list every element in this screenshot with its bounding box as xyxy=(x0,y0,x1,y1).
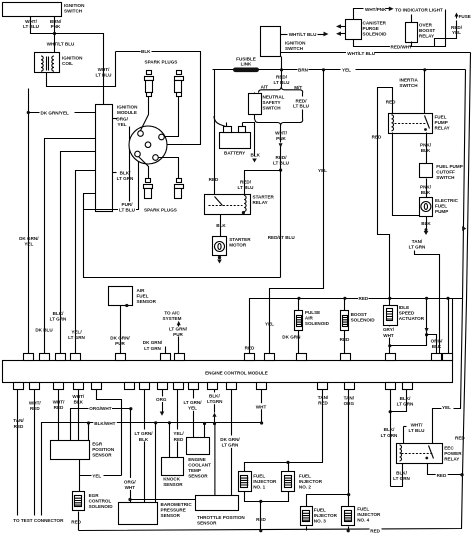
injector FI1 fuel injector no 1 xyxy=(239,472,252,492)
svg-text:SPARK PLUGS: SPARK PLUGS xyxy=(145,60,178,65)
svg-text:BAROMETRIC: BAROMETRIC xyxy=(161,502,193,507)
svg-text:RED: RED xyxy=(386,99,396,104)
svg-text:BLK: BLK xyxy=(421,148,431,153)
ground battery xyxy=(252,159,257,163)
relay K2 over boost relay xyxy=(406,23,418,43)
svg-text:RED: RED xyxy=(455,435,465,440)
svg-text:LT BLU: LT BLU xyxy=(23,24,40,29)
svg-text:BLK: BLK xyxy=(216,223,226,228)
svg-text:LTGRN: LTGRN xyxy=(207,399,223,404)
wire TAN/RED to test connector xyxy=(17,390,19,516)
svg-text:RELAY: RELAY xyxy=(435,125,450,130)
svg-text:KNOCK: KNOCK xyxy=(163,476,181,481)
svg-text:ENGINE: ENGINE xyxy=(188,457,206,462)
svg-text:RED: RED xyxy=(437,473,447,478)
svg-text:BLK/: BLK/ xyxy=(400,396,411,401)
battery B1 xyxy=(220,133,251,149)
svg-text:BLK: BLK xyxy=(74,400,84,405)
svg-text:SENSOR: SENSOR xyxy=(92,452,112,457)
wire WHT/LT BLU stub to EEC relay xyxy=(403,427,405,444)
svg-text:WHT/: WHT/ xyxy=(275,130,287,135)
svg-text:WHT/: WHT/ xyxy=(72,394,84,399)
svg-text:FUEL: FUEL xyxy=(137,294,149,299)
sensor air fuel sensor xyxy=(109,287,133,306)
svg-text:COIL: COIL xyxy=(62,61,73,66)
switch S4 fuel pump cutoff switch xyxy=(420,164,433,178)
svg-text:AIR: AIR xyxy=(305,316,314,321)
wire BLK pump ground xyxy=(426,217,428,231)
svg-text:LT GRN: LT GRN xyxy=(68,335,85,340)
svg-text:LT GRN: LT GRN xyxy=(397,402,414,407)
svg-text:YEL: YEL xyxy=(452,30,461,35)
brace bottom xyxy=(255,120,303,126)
svg-text:DK BLU: DK BLU xyxy=(35,328,53,333)
sensor EGR position sensor xyxy=(51,441,90,460)
svg-text:RED/: RED/ xyxy=(240,179,252,184)
svg-text:OVER: OVER xyxy=(419,23,433,28)
wire BLK/LT GRN module stub label xyxy=(113,172,117,174)
svg-text:FUEL: FUEL xyxy=(314,507,326,512)
svg-text:THROTTLE POSITION: THROTTLE POSITION xyxy=(197,515,245,520)
distributor cap xyxy=(129,126,167,164)
svg-text:BLK: BLK xyxy=(251,153,261,158)
wire BLK/LTGRN to ground rail and TPS xyxy=(214,390,216,413)
svg-text:BLK: BLK xyxy=(139,437,149,442)
svg-text:LT GRN: LT GRN xyxy=(381,433,398,438)
svg-text:ENGINE CONTROL MODULE: ENGINE CONTROL MODULE xyxy=(205,370,268,375)
wire WHT/PNK to starter circuit xyxy=(280,126,282,143)
svg-text:SAFETY: SAFETY xyxy=(263,100,281,105)
svg-text:RED: RED xyxy=(14,424,24,429)
wire RED inertia switch run xyxy=(378,88,393,299)
wire injector 3-4 return to bottom RED rail xyxy=(306,527,308,531)
ECM bottom connector stubs xyxy=(14,383,413,390)
wire RED rail drop to ECM right xyxy=(446,297,449,300)
svg-text:POSITION: POSITION xyxy=(92,447,115,452)
svg-text:SWITCH: SWITCH xyxy=(64,9,83,14)
wire battery negative BLK to ground xyxy=(243,123,255,157)
svg-text:YEL: YEL xyxy=(265,321,274,326)
svg-text:DK GRN/: DK GRN/ xyxy=(19,236,39,241)
svg-text:SENSOR: SENSOR xyxy=(137,299,157,304)
svg-text:SOLENOID: SOLENOID xyxy=(89,504,114,509)
svg-text:NEUTRAL: NEUTRAL xyxy=(263,95,285,100)
wire module stub 3 xyxy=(61,152,96,357)
svg-text:BLK/: BLK/ xyxy=(396,470,407,475)
svg-text:DK GRN/: DK GRN/ xyxy=(143,340,163,345)
svg-text:CONTROL: CONTROL xyxy=(89,499,112,504)
injector FI2 fuel injector no 2 xyxy=(282,472,295,492)
svg-text:SENSOR: SENSOR xyxy=(188,474,208,479)
svg-text:RED/: RED/ xyxy=(276,155,288,160)
relay K3 fuel pump relay xyxy=(389,114,433,134)
svg-text:BLK/: BLK/ xyxy=(384,427,395,432)
svg-text:PUR: PUR xyxy=(115,341,125,346)
svg-text:NO. 1: NO. 1 xyxy=(253,485,265,490)
svg-text:PRESSURE: PRESSURE xyxy=(161,507,186,512)
ECM top connector stubs xyxy=(24,354,453,361)
svg-text:LT BLU: LT BLU xyxy=(96,73,113,78)
wire WHT/BLK to EGR sensor xyxy=(78,390,80,441)
svg-text:M/T: M/T xyxy=(294,85,302,90)
svg-text:PUR/: PUR/ xyxy=(122,202,134,207)
sensor throttle position sensor xyxy=(196,496,239,511)
svg-text:BLK/: BLK/ xyxy=(120,171,131,176)
wire module stub 5 to RED/LT BLU rail xyxy=(84,194,281,278)
wire injector 1-2 return xyxy=(245,492,289,502)
wire ORG/WHT cross link xyxy=(71,409,131,441)
solenoid L2 pulse air solenoid xyxy=(297,297,300,300)
svg-text:YEL: YEL xyxy=(318,168,327,173)
svg-text:NO. 2: NO. 2 xyxy=(299,485,311,490)
svg-text:BLK/: BLK/ xyxy=(53,311,64,316)
wire GRY/WHT actuator to ECM xyxy=(389,326,391,357)
svg-text:SWITCH: SWITCH xyxy=(285,46,304,51)
relay K4 EEC power relay xyxy=(397,444,443,464)
svg-text:PNK: PNK xyxy=(51,24,61,29)
spark plug P4 xyxy=(159,158,184,199)
wire LT GRN/YEL to coolant sensor xyxy=(193,390,195,438)
svg-text:INJECTOR: INJECTOR xyxy=(253,479,277,484)
svg-text:WHT/: WHT/ xyxy=(411,422,423,427)
svg-text:PUR: PUR xyxy=(173,332,183,337)
wire PUR/LT BLU module to distributor pickup xyxy=(84,162,139,210)
svg-text:DK GRN/YEL: DK GRN/YEL xyxy=(41,111,70,116)
svg-text:ORG/WHT: ORG/WHT xyxy=(89,406,111,411)
vacuum arrows into canister solenoid xyxy=(338,26,346,28)
solenoid L3 boost solenoid xyxy=(343,297,346,300)
injector FI4 fuel injector no 4 xyxy=(342,507,355,526)
svg-text:RED: RED xyxy=(209,177,219,182)
wire YEL right border xyxy=(433,70,466,444)
ignition module U1 xyxy=(96,105,113,212)
wire YEL tap to fuel pump relay xyxy=(423,68,426,71)
svg-text:FUEL: FUEL xyxy=(357,507,369,512)
svg-text:YEL: YEL xyxy=(92,473,101,478)
svg-text:COOLANT: COOLANT xyxy=(188,463,211,468)
wire WHT to sensor ground rail xyxy=(261,390,263,423)
svg-text:LT BLU: LT BLU xyxy=(119,207,136,212)
wire WHT/LT BLU junction to coil top xyxy=(54,34,56,53)
switch S3 neutral safety switch xyxy=(249,94,262,115)
svg-text:WHT: WHT xyxy=(125,485,136,490)
svg-text:SYSTEM: SYSTEM xyxy=(163,316,182,321)
svg-text:RED/: RED/ xyxy=(296,98,308,103)
svg-text:RED/LT BLU: RED/LT BLU xyxy=(268,235,296,240)
fuse F1 xyxy=(435,21,457,47)
svg-text:BOOST: BOOST xyxy=(351,312,368,317)
svg-text:TAN/: TAN/ xyxy=(344,396,355,401)
svg-text:WHT/: WHT/ xyxy=(98,67,110,72)
svg-text:NO. 4: NO. 4 xyxy=(357,518,369,523)
svg-text:MOTOR: MOTOR xyxy=(229,243,247,248)
svg-text:BLK: BLK xyxy=(432,344,442,349)
spark plug P1 xyxy=(141,71,154,131)
node junction starter feed xyxy=(279,169,282,172)
svg-text:YEL: YEL xyxy=(442,405,451,410)
svg-text:BLK/WHT: BLK/WHT xyxy=(94,421,115,426)
wire TAN/RED to injectors 1-2 xyxy=(245,390,323,472)
svg-text:RED: RED xyxy=(359,296,369,301)
svg-text:PNK: PNK xyxy=(276,136,286,141)
wire PNK/BLK cutoff to pump xyxy=(426,179,428,198)
svg-text:FUEL: FUEL xyxy=(299,474,311,479)
wire ground-rail drop to knock sensor xyxy=(168,421,171,424)
svg-text:BOOST: BOOST xyxy=(419,28,436,33)
wire link to TPS xyxy=(131,499,196,501)
svg-text:RED/: RED/ xyxy=(451,25,463,30)
svg-text:RED: RED xyxy=(54,405,64,410)
svg-text:IDLE: IDLE xyxy=(399,305,409,310)
wire BLK/LT GRN ECM pair to EEC relay xyxy=(391,390,407,412)
svg-text:WHT: WHT xyxy=(383,333,394,338)
svg-text:BLK: BLK xyxy=(421,190,431,195)
sensor barometric pressure sensor xyxy=(119,503,158,525)
svg-text:SOLENOID: SOLENOID xyxy=(305,321,330,326)
svg-text:WHT/LT BLU: WHT/LT BLU xyxy=(347,51,375,56)
wire RED/LT BLU down to NSS braces xyxy=(281,70,283,87)
svg-text:SPARK PLUGS: SPARK PLUGS xyxy=(144,208,177,213)
svg-text:LT GRN: LT GRN xyxy=(117,176,134,181)
svg-text:INERTIA: INERTIA xyxy=(399,78,418,83)
svg-text:BRN: BRN xyxy=(298,68,309,73)
wire ground-rail drop to barometric xyxy=(154,421,157,424)
svg-text:STARTER: STARTER xyxy=(229,237,251,242)
wire LT GRN/BLK to barometric sensor xyxy=(144,390,146,503)
svg-text:TO A/C: TO A/C xyxy=(164,310,180,315)
wire WHT/RED to EGR sensor xyxy=(58,390,60,441)
wire YEL from fusible junction to ECM xyxy=(270,70,324,357)
svg-text:FUEL: FUEL xyxy=(435,114,447,119)
svg-text:WHT/PNK: WHT/PNK xyxy=(365,7,387,12)
svg-text:LINK: LINK xyxy=(241,61,252,66)
svg-text:STARTER: STARTER xyxy=(253,194,275,199)
spark plug P2 xyxy=(165,71,184,137)
svg-text:ORG/: ORG/ xyxy=(116,116,128,121)
svg-text:YEL: YEL xyxy=(118,122,127,127)
svg-text:MODULE: MODULE xyxy=(117,110,137,115)
motor M1 starter motor xyxy=(213,237,227,256)
switch S1 ignition switch (left) xyxy=(3,3,62,17)
svg-text:SWITCH: SWITCH xyxy=(263,106,282,111)
svg-text:IGNITION: IGNITION xyxy=(117,105,138,110)
svg-text:RELAY: RELAY xyxy=(444,456,459,461)
wire YEL EGR sensor to solenoid xyxy=(79,460,81,492)
solenoid L5 EGR control solenoid xyxy=(73,492,85,511)
svg-text:SOLENOID: SOLENOID xyxy=(363,31,388,36)
svg-text:EGR: EGR xyxy=(89,493,100,498)
wire stub to YEL node xyxy=(97,390,122,476)
svg-text:IGNITION: IGNITION xyxy=(64,3,85,8)
wire BLK/WHT rail drop to EGR sensor xyxy=(88,423,90,441)
svg-text:BRN/: BRN/ xyxy=(50,19,62,24)
svg-text:TAN/: TAN/ xyxy=(412,239,423,244)
svg-text:NO. 3: NO. 3 xyxy=(314,518,326,523)
svg-text:ACTUATOR: ACTUATOR xyxy=(399,316,425,321)
wire WHT/LT BLU long line to right xyxy=(281,52,471,54)
wire DK GRN/PUR sensor to ECM xyxy=(120,306,122,357)
svg-text:TO TEST CONNECTOR: TO TEST CONNECTOR xyxy=(13,518,64,523)
motor M2 electric fuel pump xyxy=(420,198,433,217)
svg-text:RED: RED xyxy=(71,520,81,525)
svg-text:LT GRN: LT GRN xyxy=(144,346,161,351)
svg-text:SENSOR: SENSOR xyxy=(197,521,217,526)
svg-text:FUEL: FUEL xyxy=(253,474,265,479)
ECM U2 engine control module xyxy=(3,361,453,383)
wire ORG/YEL module output xyxy=(113,118,118,120)
svg-text:INJECTOR: INJECTOR xyxy=(299,479,323,484)
svg-text:LT BLU: LT BLU xyxy=(409,428,426,433)
svg-text:ORG/: ORG/ xyxy=(431,339,443,344)
svg-text:SENSOR: SENSOR xyxy=(161,513,181,518)
wire PNK/BLK relay to cutoff switch xyxy=(426,133,428,164)
wire M/T RED/LT BLU xyxy=(302,93,304,97)
svg-text:RED: RED xyxy=(174,437,184,442)
wire BLK coil secondary to distributor xyxy=(116,52,201,145)
svg-text:RELAY: RELAY xyxy=(419,34,434,39)
svg-text:CUTOFF: CUTOFF xyxy=(436,170,455,175)
ignition coil T1 xyxy=(35,53,60,73)
svg-text:PURGE: PURGE xyxy=(363,26,379,31)
svg-text:LT BLU: LT BLU xyxy=(273,160,290,165)
svg-text:RED: RED xyxy=(256,517,266,522)
wire DK GRN/YEL coil to module and ECM xyxy=(28,89,30,357)
wire WHT/LT BLU from ignition switch xyxy=(31,17,55,34)
svg-text:RED: RED xyxy=(340,337,350,342)
svg-text:PULSE: PULSE xyxy=(305,310,320,315)
svg-text:FUEL PUMP: FUEL PUMP xyxy=(436,164,462,169)
svg-text:LT GRN: LT GRN xyxy=(50,316,67,321)
svg-text:PNK/: PNK/ xyxy=(420,184,432,189)
svg-text:ORG/: ORG/ xyxy=(124,480,136,485)
svg-text:BLK/: BLK/ xyxy=(209,393,220,398)
brace top A/T M/T xyxy=(259,87,303,93)
wire TAN/ORG to injectors 3-4 xyxy=(348,390,350,507)
svg-text:TEMP: TEMP xyxy=(188,468,201,473)
actuator L4 idle speed actuator xyxy=(388,297,391,300)
wire RED/LT BLU to starter relay xyxy=(245,171,281,195)
wire relay RED to pump body xyxy=(393,133,420,216)
svg-text:SENSOR: SENSOR xyxy=(163,482,183,487)
wire RED/LT BLU long run to ECM rail xyxy=(280,171,282,278)
wire RED/WHT return line xyxy=(354,10,446,47)
svg-text:INJECTOR: INJECTOR xyxy=(357,512,381,517)
svg-text:RELAY: RELAY xyxy=(253,200,268,205)
svg-text:INJECTOR: INJECTOR xyxy=(314,513,338,518)
svg-text:YEL: YEL xyxy=(188,406,197,411)
svg-text:EEC: EEC xyxy=(444,445,454,450)
wire BLK/WHT to test connector xyxy=(42,423,262,516)
svg-text:BLK: BLK xyxy=(421,221,431,226)
svg-text:YEL: YEL xyxy=(342,68,351,73)
node junction at ignition feed xyxy=(53,32,56,35)
wire ORG stub with connector arrow xyxy=(162,390,164,413)
svg-text:TO INDICATOR LIGHT: TO INDICATOR LIGHT xyxy=(395,7,443,12)
injector FI3 fuel injector no 3 xyxy=(301,507,313,526)
wire RED EGR solenoid to bottom rail xyxy=(78,512,80,531)
svg-text:YEL/: YEL/ xyxy=(173,431,184,436)
svg-text:RED: RED xyxy=(318,400,328,405)
svg-text:RED: RED xyxy=(370,529,380,534)
svg-text:BATTERY: BATTERY xyxy=(224,150,245,155)
wire RED EEC relay output xyxy=(428,464,463,475)
svg-text:WHT/: WHT/ xyxy=(53,399,65,404)
wire RED rail from ECM xyxy=(250,299,463,357)
wire battery feed RED from fusible link xyxy=(214,70,216,195)
svg-text:WHT: WHT xyxy=(256,404,267,409)
wire module stub 2 xyxy=(45,139,96,357)
svg-text:TAN/: TAN/ xyxy=(13,418,24,423)
relay K1 starter relay xyxy=(205,195,251,215)
svg-text:RED/WHT: RED/WHT xyxy=(391,44,413,49)
wire YEL/RED to knock sensor xyxy=(177,390,179,458)
spark plug P3 xyxy=(139,157,153,199)
svg-text:SPEED: SPEED xyxy=(399,311,415,316)
svg-text:FUEL: FUEL xyxy=(435,204,447,209)
wire coil negative to BLK riser xyxy=(47,52,116,87)
svg-text:LT BLU: LT BLU xyxy=(293,104,310,109)
svg-text:AIR: AIR xyxy=(137,288,146,293)
svg-text:SOLENOID: SOLENOID xyxy=(351,318,376,323)
svg-text:TAN/: TAN/ xyxy=(318,395,329,400)
arrow marker on right border xyxy=(462,226,466,231)
svg-text:LT GRN/: LT GRN/ xyxy=(183,400,202,405)
solenoid L1 canister purge solenoid xyxy=(346,20,362,40)
wire ORG/BLK branch xyxy=(426,299,428,335)
svg-text:SWITCH: SWITCH xyxy=(436,175,455,180)
svg-text:WHT/LT BLU: WHT/LT BLU xyxy=(47,41,75,46)
svg-text:RED: RED xyxy=(30,406,40,411)
svg-text:RED: RED xyxy=(245,346,255,351)
node junction BRN at ign switch xyxy=(280,68,283,71)
wire ignition switch to BRN junction xyxy=(281,57,283,70)
svg-text:RED: RED xyxy=(372,135,382,140)
wire BLK relay to starter motor xyxy=(220,215,222,237)
svg-text:WHT/LT BLU: WHT/LT BLU xyxy=(289,32,317,37)
svg-text:LT GRN: LT GRN xyxy=(222,443,239,448)
svg-text:IGNITION: IGNITION xyxy=(285,41,306,46)
sensor knock sensor xyxy=(162,458,184,476)
svg-text:PUMP: PUMP xyxy=(435,209,448,214)
svg-text:LT GRN/: LT GRN/ xyxy=(169,326,188,331)
svg-text:LT GRN: LT GRN xyxy=(393,476,410,481)
wire module stub 4 xyxy=(76,171,96,357)
wire DK GRN/LT GRN stub xyxy=(165,347,167,357)
wire WHT/LT BLU junction to ignition module xyxy=(55,34,104,105)
svg-text:EGR: EGR xyxy=(92,441,103,446)
svg-text:LT BLU: LT BLU xyxy=(274,80,291,85)
svg-text:ORG: ORG xyxy=(344,401,355,406)
svg-text:FUSE: FUSE xyxy=(459,14,471,19)
wire WHT/LT BLU outer right border xyxy=(79,53,471,531)
svg-text:CANISTER: CANISTER xyxy=(363,20,387,25)
svg-text:DK GRN/: DK GRN/ xyxy=(110,335,130,340)
svg-text:IGNITION: IGNITION xyxy=(62,56,83,61)
wire starter motor ground xyxy=(219,256,221,259)
svg-text:DK GRN/: DK GRN/ xyxy=(220,437,240,442)
wire WHT/RED to test connector xyxy=(34,390,36,516)
svg-text:ORG: ORG xyxy=(156,397,167,402)
svg-text:LT GRN/: LT GRN/ xyxy=(134,431,153,436)
svg-text:PNK/: PNK/ xyxy=(420,143,432,148)
svg-text:POWER: POWER xyxy=(444,451,462,456)
svg-text:SWITCH: SWITCH xyxy=(399,83,418,88)
svg-text:WHT/: WHT/ xyxy=(25,19,37,24)
svg-text:ELECTRIC: ELECTRIC xyxy=(435,198,459,203)
svg-text:LT GRN: LT GRN xyxy=(409,245,426,250)
svg-text:LT BLU: LT BLU xyxy=(238,185,255,190)
svg-text:WHT/: WHT/ xyxy=(29,400,41,405)
